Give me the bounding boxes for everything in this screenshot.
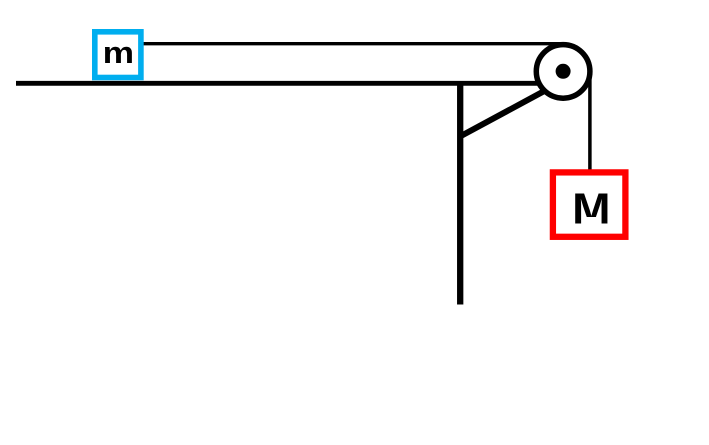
pulley wheel [536, 45, 590, 99]
support post [457, 81, 463, 305]
block m (cyan box) [95, 32, 141, 78]
white notch under M vertex (Arial-style raised vertex) [584, 217, 599, 225]
svg-text:m: m [103, 35, 134, 69]
table surface line [16, 81, 563, 86]
svg-text:M: M [572, 185, 610, 234]
diagonal brace [460, 85, 556, 137]
rope from block m to pulley top [142, 42, 563, 45]
block M (red box) [553, 172, 626, 236]
rope from pulley down to block M [588, 71, 592, 170]
pulley axle dot [556, 64, 571, 79]
